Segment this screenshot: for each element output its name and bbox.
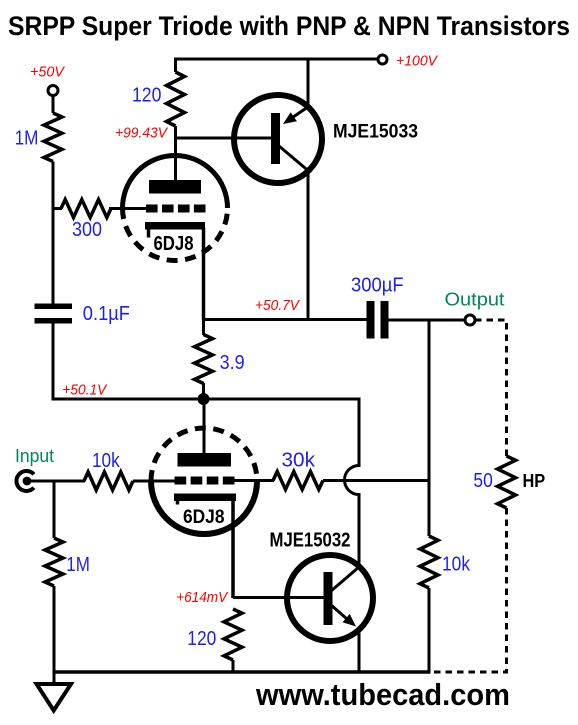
resistor 10k (input) (84, 472, 133, 490)
wire +100V rail (174, 58, 379, 61)
wire left rail 1M to cap (52, 162, 55, 304)
transistor Q1 MJE15033 (234, 95, 322, 183)
input jack (16, 471, 33, 491)
resistor R 1M (upper) (44, 113, 62, 162)
svg-text:0.1µF: 0.1µF (83, 303, 130, 325)
wire node to Q2 collector (hops over 30k wire) (345, 399, 360, 567)
V2 cathode (174, 494, 236, 502)
svg-text:+50V: +50V (30, 65, 65, 81)
svg-text:+99.43V: +99.43V (115, 126, 168, 142)
resistor R 1M (lower) (45, 538, 63, 586)
tube V1 dashed bottom arc (123, 208, 228, 261)
V2 grid lead right (234, 479, 274, 482)
V2 cathode left leg (176, 500, 180, 505)
svg-text:MJE15033: MJE15033 (333, 121, 418, 143)
svg-text:6DJ8: 6DJ8 (183, 506, 225, 528)
tube V2 solid bottom arc (151, 481, 257, 534)
wire 30k to 10k rail (323, 479, 430, 482)
wire terminal to R 1M (52, 96, 55, 114)
wire input tee down (53, 481, 56, 538)
resistor 3.9 (195, 335, 213, 384)
wire input to 10k (30, 480, 85, 483)
resistor 50 HP load (498, 456, 516, 508)
svg-text:120: 120 (187, 628, 216, 650)
svg-text:300µF: 300µF (351, 275, 404, 297)
Output terminal (465, 315, 475, 325)
V2 cathode lead down (231, 500, 235, 598)
svg-text:30k: 30k (282, 450, 317, 472)
svg-text:1M: 1M (66, 554, 90, 576)
V1 plate (149, 180, 201, 194)
+100V terminal (378, 55, 387, 64)
wire cap to output (389, 319, 466, 322)
resistor 120 (upper) (167, 72, 185, 126)
svg-text:+50.7V: +50.7V (255, 298, 300, 314)
V2 plate (178, 453, 232, 467)
ground bus wire (54, 670, 430, 674)
svg-text:50: 50 (473, 470, 492, 492)
V1 grid (dashed) (146, 205, 206, 213)
wire rail to Q1 emitter (307, 59, 310, 108)
capacitor C 0.1uF (35, 304, 73, 324)
svg-text:MJE15032: MJE15032 (270, 530, 351, 552)
+50.1V wire (52, 398, 361, 401)
V1 grid lead (109, 207, 147, 210)
ground symbol (37, 684, 72, 711)
wire 10k to grid (133, 480, 176, 483)
V1 cathode lead down (202, 228, 206, 320)
wire rail to 300 (52, 207, 62, 210)
V2 plate lead (203, 399, 206, 454)
V1 cathode left leg (147, 228, 151, 238)
svg-text:Input: Input (15, 445, 54, 466)
resistor 10k (right) (420, 536, 438, 588)
svg-text:10k: 10k (442, 554, 471, 576)
svg-text:300: 300 (72, 219, 102, 241)
svg-text:1M: 1M (15, 128, 39, 150)
+50V terminal (48, 86, 58, 96)
V1 cathode (145, 222, 205, 230)
wire Q1 collector down (307, 170, 310, 320)
svg-text:Output: Output (445, 289, 505, 310)
svg-text:www.tubecad.com: www.tubecad.com (255, 677, 510, 712)
svg-text:+100V: +100V (396, 54, 438, 70)
transistor Q2 MJE15032 (287, 555, 373, 641)
wire Q2 emitter to ground (358, 627, 361, 672)
wire rail corner down (174, 59, 177, 72)
+50.7V wire (204, 318, 368, 321)
V2 grid (dashed) (175, 477, 235, 485)
svg-text:6DJ8: 6DJ8 (154, 232, 194, 255)
svg-text:120: 120 (132, 85, 161, 107)
resistor 300 (61, 200, 111, 218)
resistor 120 (lower) (224, 609, 242, 660)
capacitor C 300uF (367, 301, 389, 339)
wire 10k to ground (428, 588, 431, 674)
wire 1M to ground (53, 586, 56, 684)
wire 120 to plate, +99.43V node (174, 126, 177, 181)
wire base of Q1 (176, 137, 273, 140)
wire Q2 base (233, 596, 325, 599)
wire cap to +50.1V corner (52, 324, 55, 401)
tube V2 6DJ8 lower: dashed top arc (151, 428, 257, 481)
svg-text:+50.1V: +50.1V (62, 383, 107, 399)
dashed wire HP to ground (429, 508, 507, 672)
svg-text:10k: 10k (92, 450, 121, 472)
dashed wire output to HP (475, 320, 507, 456)
tube V1 6DJ8 upper: solid top arc (123, 156, 228, 208)
svg-text:+614mV: +614mV (176, 590, 228, 606)
svg-text:SRPP Super Triode with PNP & N: SRPP Super Triode with PNP & NPN Transis… (8, 11, 570, 41)
junction node dot (198, 393, 210, 405)
resistor 30k (273, 472, 323, 490)
wire output node down (428, 320, 431, 536)
svg-text:HP: HP (523, 470, 546, 491)
svg-text:3.9: 3.9 (220, 352, 245, 374)
